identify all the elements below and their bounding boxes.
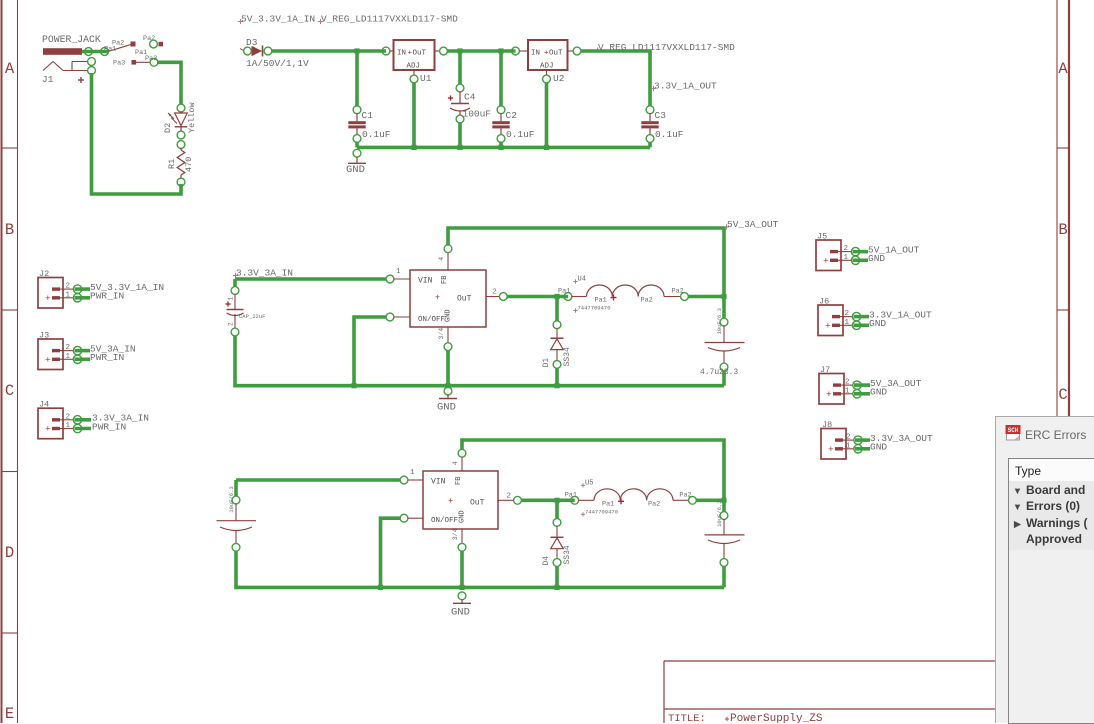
svg-text:1: 1: [845, 387, 850, 395]
svg-text:2: 2: [844, 245, 849, 253]
svg-text:+: +: [45, 424, 51, 435]
svg-text:10uF/6.3: 10uF/6.3: [716, 308, 723, 334]
ground: [353, 149, 361, 157]
diode D3: [240, 49, 244, 52]
svg-text:C3: C3: [655, 110, 667, 121]
wire FB to top rail mid: [448, 228, 724, 297]
svg-text:C: C: [5, 382, 14, 400]
capacitor C3: [646, 106, 654, 114]
pin OUT low: [498, 499, 514, 501]
pad Pa1 ring mid: [564, 293, 572, 301]
svg-text:ADJ: ADJ: [540, 63, 554, 71]
svg-text:J3: J3: [39, 331, 49, 341]
svg-text:2: 2: [228, 322, 235, 326]
svg-text:OuT: OuT: [470, 498, 485, 507]
svg-text:1: 1: [844, 254, 849, 262]
pin ring J6 pin 1: [852, 321, 860, 329]
svg-text:GND: GND: [451, 606, 470, 618]
svg-text:FB: FB: [441, 276, 449, 284]
wire U1 ADJ to GND rail: [412, 83, 416, 148]
svg-text:0.1uF: 0.1uF: [506, 129, 535, 140]
svg-text:U4: U4: [578, 276, 586, 284]
svg-text:ON/OFF: ON/OFF: [431, 517, 458, 525]
inductor U4 coil: [572, 296, 587, 298]
node junction rail ONOFF mid: [351, 383, 356, 388]
wire ON/OFF to rail mid: [354, 317, 387, 386]
wire diode branch low: [555, 500, 559, 519]
wire U2 OUT to C3 branch: [581, 51, 651, 106]
pin ring J4 pin 1: [73, 424, 81, 432]
node junction diode tap mid: [554, 294, 559, 299]
wire OUT to inductor mid: [507, 295, 568, 299]
svg-text:4: 4: [452, 461, 459, 465]
svg-text:+: +: [45, 293, 51, 304]
svg-text:D2: D2: [163, 123, 173, 133]
svg-text:Yellow: Yellow: [187, 101, 197, 133]
svg-text:1: 1: [396, 268, 401, 276]
svg-text:PWR_IN: PWR_IN: [90, 291, 124, 302]
pin GND mid: [447, 327, 449, 343]
svg-text:Pa2: Pa2: [641, 297, 653, 305]
inductor U5 coil: [578, 499, 594, 501]
svg-text:0.1uF: 0.1uF: [655, 129, 684, 140]
wire stub J4 pin 2: [75, 418, 92, 422]
wire inductor to output mid: [688, 295, 724, 299]
svg-text:2: 2: [845, 379, 850, 387]
pin ring U1 IN: [382, 47, 390, 55]
svg-text:J6: J6: [819, 297, 829, 307]
svg-text:U2: U2: [553, 73, 565, 84]
label 7447709470 mid: [573, 310, 577, 312]
pin ring J8 pin 2: [854, 436, 862, 444]
pin ring J3 pin 1: [73, 355, 81, 363]
svg-text:7447709470: 7447709470: [585, 508, 618, 515]
node junction rail GND low: [459, 585, 464, 590]
svg-text:D1: D1: [542, 358, 551, 368]
svg-text:100uF: 100uF: [463, 109, 492, 120]
svg-text:ON/OFF: ON/OFF: [418, 316, 445, 324]
svg-text:D4: D4: [542, 556, 551, 566]
wire C4 to GND rail: [458, 123, 462, 148]
wire stub J6 pin 1: [854, 323, 870, 327]
connector J2: [38, 278, 63, 309]
svg-text:U5: U5: [585, 479, 593, 487]
svg-text:3.3V_3A_IN: 3.3V_3A_IN: [236, 268, 293, 279]
wire VIN net low: [236, 478, 400, 482]
connector J4: [38, 408, 63, 439]
net label 5V_3A_OUT: [724, 226, 729, 228]
net label 5V_3.3V_1A_IN: [238, 21, 243, 23]
diode D1: [553, 321, 561, 329]
pin OUT mid: [486, 296, 500, 298]
pin ring J1 tip: [85, 48, 93, 56]
wire stub J8 pin 1: [855, 447, 870, 451]
wire D3 to U1 IN: [271, 49, 386, 53]
pin ring J7 pin 2: [853, 381, 861, 389]
svg-text:3/4: 3/4: [438, 328, 445, 340]
frame row divider right: [1057, 309, 1069, 311]
svg-text:Pa2: Pa2: [143, 35, 155, 43]
svg-text:GND: GND: [870, 387, 887, 398]
pin ring J2 pin 1: [73, 294, 81, 302]
switch contact Pa1-Pa2 lever: [108, 44, 133, 52]
svg-text:PowerSupply_ZS: PowerSupply_ZS: [730, 713, 823, 723]
svg-text:OuT: OuT: [549, 50, 563, 58]
ERC dialog title: [1025, 428, 1086, 442]
wire input branch low: [234, 480, 238, 497]
pin FB mid: [447, 252, 449, 270]
wire stub J3 pin 2: [75, 349, 91, 353]
ERC dialog icon: [1005, 424, 1022, 441]
svg-text:SS34: SS34: [563, 545, 572, 564]
svg-text:Pa1: Pa1: [602, 500, 614, 508]
svg-text:J1: J1: [42, 74, 54, 85]
svg-text:B: B: [5, 221, 14, 239]
pin ring J4 pin 2: [73, 416, 81, 424]
svg-text:C4: C4: [464, 92, 476, 103]
svg-text:D3: D3: [246, 37, 258, 48]
svg-text:1: 1: [845, 319, 850, 327]
node junction rail U1 ADJ: [411, 145, 416, 150]
pin ring J5 pin 2: [851, 247, 859, 255]
wire stub J8 pin 2: [855, 438, 870, 442]
svg-text:J2: J2: [39, 269, 49, 279]
frame row divider right: [1057, 147, 1069, 149]
svg-text:B: B: [1058, 221, 1067, 239]
ERC dialog list box: [1008, 458, 1094, 724]
svg-text:GND: GND: [870, 442, 887, 453]
wire stub J6 pin 2: [854, 315, 870, 319]
svg-text:PWR_IN: PWR_IN: [90, 352, 124, 363]
pin ring LED bottom: [177, 131, 185, 139]
pin ring R1 top: [177, 141, 185, 149]
pin ring J5 pin 1: [851, 256, 859, 264]
wire U2 ADJ to GND rail: [545, 83, 549, 148]
label 7447709470 low: [581, 513, 585, 515]
net label V_REG_LD1117VXXLD117-SMD top: [318, 21, 323, 23]
svg-text:1: 1: [228, 297, 235, 301]
svg-text:Pa1: Pa1: [595, 297, 607, 305]
wire input cap to rail mid: [235, 336, 724, 386]
svg-text:+: +: [828, 444, 834, 455]
wire jack ground loop: [92, 73, 182, 194]
connector J1 plus mark: [78, 79, 84, 81]
op-amp U2 regulator box: [528, 40, 568, 70]
svg-text:U1: U1: [420, 73, 432, 84]
svg-text:+: +: [45, 355, 51, 366]
wire GND pin to rail mid: [446, 350, 450, 386]
svg-text:Pa1: Pa1: [565, 491, 577, 499]
connector J3: [38, 339, 63, 370]
svg-text:SCH: SCH: [1008, 427, 1019, 434]
svg-text:GND: GND: [868, 253, 885, 264]
svg-text:470: 470: [184, 157, 194, 172]
connector J6: [818, 305, 843, 336]
wire VIN net mid: [235, 277, 386, 281]
svg-text:Pa2: Pa2: [648, 500, 660, 508]
pin ring VIN mid: [386, 275, 394, 283]
svg-text:POWER_JACK: POWER_JACK: [42, 34, 101, 45]
wire diode to rail mid: [555, 368, 559, 386]
svg-text:7447709470: 7447709470: [578, 305, 611, 312]
pad Pa1 ring low: [571, 496, 579, 504]
wire net to C4: [458, 51, 462, 85]
pin FB low: [461, 457, 463, 471]
frame row divider left: [2, 632, 18, 634]
svg-text:+: +: [448, 496, 453, 506]
svg-text:5V_3.3V_1A_IN: 5V_3.3V_1A_IN: [241, 14, 315, 25]
pin U1 OUT: [435, 50, 441, 52]
frame row divider left: [2, 147, 18, 149]
svg-text:1: 1: [410, 469, 415, 477]
wire net to C1: [355, 51, 359, 107]
svg-text:+: +: [825, 321, 831, 332]
svg-text:2: 2: [66, 283, 71, 291]
wire J1 tip stub: [82, 50, 108, 54]
wire stub J5 pin 2: [853, 250, 869, 254]
svg-text:TITLE:: TITLE:: [668, 713, 706, 723]
pin ring U2 IN: [512, 47, 520, 55]
pin U2 ADJ: [546, 70, 548, 76]
svg-text:E: E: [5, 705, 14, 723]
wire input cap to rail low: [236, 551, 724, 588]
pin ring J6 pin 2: [852, 312, 860, 320]
wire inductor to output low: [696, 498, 724, 502]
svg-text:A: A: [1058, 60, 1068, 78]
connector J8: [821, 429, 846, 460]
svg-text:2: 2: [846, 434, 851, 442]
connector J1 barrel contact bar: [43, 48, 82, 55]
node junction C2 tap: [498, 48, 503, 53]
svg-text:J8: J8: [822, 420, 832, 430]
frame left inner line: [17, 0, 19, 723]
pin ON/OFF low: [400, 514, 408, 522]
svg-text:1: 1: [66, 422, 71, 430]
diode D4: [553, 519, 561, 527]
pad Pa2 ring mid: [681, 293, 689, 301]
svg-text:+: +: [435, 292, 440, 302]
pin ON/OFF mid: [386, 313, 394, 321]
ground: [444, 387, 452, 395]
wire output cap branch mid: [722, 297, 726, 319]
wire stub J3 pin 1: [75, 357, 91, 361]
wire OUT to inductor low: [521, 498, 575, 502]
title block outline: [664, 660, 1057, 662]
svg-text:PWR_IN: PWR_IN: [92, 421, 126, 432]
svg-text:OuT: OuT: [413, 50, 427, 58]
svg-text:2: 2: [66, 344, 71, 352]
net label 3.3V_1A_OUT: [651, 88, 656, 90]
svg-text:3.3V_1A_OUT: 3.3V_1A_OUT: [654, 81, 717, 92]
svg-text:+: +: [823, 256, 829, 267]
svg-text:0.1uF: 0.1uF: [362, 129, 391, 140]
wire input branch mid: [233, 279, 237, 287]
wire output cap branch low: [722, 500, 726, 512]
wire stub J2 pin 2: [75, 287, 91, 291]
connector J1 symbol: [43, 62, 53, 71]
node junction C4 tap: [457, 48, 462, 53]
pin ring jack pin2: [88, 58, 96, 66]
pin ring LED top: [177, 104, 185, 112]
wire GND pin to rail low: [460, 551, 464, 588]
svg-text:IN: IN: [397, 50, 406, 58]
pin GND low: [461, 529, 463, 544]
svg-text:Pa1: Pa1: [104, 46, 116, 54]
node junction rail ONOFF low: [378, 585, 383, 590]
op-amp U4 buck regulator box: [410, 270, 486, 327]
pad Pa3 ring: [150, 58, 158, 66]
svg-text:4: 4: [438, 257, 445, 261]
svg-text:J5: J5: [817, 232, 827, 242]
capacitor output mid: [720, 318, 728, 326]
frame right outer line: [1068, 0, 1070, 660]
capacitor C2: [497, 106, 505, 114]
node junction rail C4: [457, 145, 462, 150]
svg-text:IN: IN: [531, 50, 540, 58]
wire stub J4 pin 1: [75, 427, 92, 431]
node junction rail U2 ADJ: [544, 145, 549, 150]
svg-text:1: 1: [66, 291, 71, 299]
connector J7: [819, 374, 844, 405]
wire stub J7 pin 1: [854, 392, 870, 396]
diode D2 LED: [180, 112, 182, 114]
svg-text:CAP_22uF: CAP_22uF: [239, 313, 265, 320]
node junction rail diode low: [554, 585, 559, 590]
connector J5: [816, 240, 841, 271]
wire Pa3 to LED branch: [157, 62, 181, 104]
wire stub J5 pin 1: [853, 258, 869, 262]
svg-text:2: 2: [507, 492, 512, 500]
pin ring jack pin1: [88, 67, 96, 75]
wire stub J2 pin 1: [75, 296, 91, 300]
svg-text:V_REG_LD1117VXXLD117-SMD: V_REG_LD1117VXXLD117-SMD: [321, 14, 458, 25]
svg-text:Pa3: Pa3: [113, 60, 125, 68]
label U4: [573, 281, 577, 283]
wire U1 OUT to U2 IN: [447, 49, 516, 53]
svg-text:10uF/6.3: 10uF/6.3: [228, 486, 235, 512]
svg-text:C2: C2: [506, 110, 518, 121]
svg-text:VIN: VIN: [431, 478, 446, 487]
node junction rail GND mid: [445, 383, 450, 388]
frame row divider left: [2, 309, 18, 311]
svg-text:1: 1: [846, 442, 851, 450]
capacitor C1: [353, 106, 361, 114]
pin ring J1 tip node: [101, 48, 109, 56]
wire net to C2: [499, 51, 503, 107]
op-amp U5 buck regulator box: [423, 471, 498, 529]
svg-text:FB: FB: [455, 477, 463, 485]
pin ring R1 bottom: [177, 178, 185, 186]
node junction C1 tap: [354, 48, 359, 53]
svg-text:GND: GND: [459, 510, 467, 523]
svg-text:D: D: [5, 544, 14, 562]
capacitor input low: [232, 496, 240, 504]
pin ring J8 pin 1: [854, 445, 862, 453]
frame left outer line: [1, 0, 3, 723]
svg-text:1A/50V/1,1V: 1A/50V/1,1V: [246, 58, 309, 69]
pin U2 OUT: [568, 50, 574, 52]
ground: [458, 592, 466, 600]
wire C1 to GND rail: [355, 142, 359, 148]
svg-text:C: C: [1058, 386, 1067, 404]
wire C3 to GND rail: [648, 142, 652, 147]
svg-text:+: +: [826, 389, 832, 400]
svg-text:J4: J4: [39, 400, 49, 410]
svg-text:4.7u: 4.7u: [700, 368, 719, 377]
node junction rail C2: [498, 145, 503, 150]
pin ring J7 pin 1: [853, 390, 861, 398]
svg-text:C1: C1: [362, 110, 374, 121]
svg-text:GND: GND: [346, 164, 365, 176]
svg-text:1: 1: [66, 353, 71, 361]
resistor R1: [180, 148, 182, 150]
capacitor C4 polarized: [456, 84, 464, 92]
svg-text:ADJ: ADJ: [407, 63, 421, 71]
title block name PowerSupply_ZS: [725, 718, 729, 720]
label V_REG_LD1117VXXLD117-SMD right: [595, 49, 600, 51]
svg-text:J7: J7: [820, 365, 830, 375]
label U5: [581, 484, 585, 486]
svg-text:GND: GND: [437, 402, 456, 414]
ERC Errors dialog window: [995, 416, 1094, 723]
net label 3.3V_3A_IN: [233, 275, 238, 277]
svg-text:SS34: SS34: [563, 347, 572, 366]
pad Pa3 contact dot: [132, 60, 137, 65]
pin U1 ADJ: [413, 70, 415, 76]
svg-text:GND: GND: [445, 309, 453, 322]
frame right inner line: [1056, 0, 1058, 660]
op-amp U1 regulator box: [394, 40, 435, 70]
wire C2 to GND rail: [499, 142, 503, 148]
node junction rail diode mid: [554, 383, 559, 388]
svg-text:GND: GND: [869, 318, 886, 329]
svg-text:2: 2: [845, 310, 850, 318]
node junction output corner mid: [721, 294, 726, 299]
node junction diode tap low: [554, 498, 559, 503]
svg-text:10uF/6.3: 10uF/6.3: [716, 500, 723, 526]
wire GND rail top section: [357, 146, 650, 150]
wire ON/OFF to rail low: [381, 518, 401, 587]
svg-text:2: 2: [492, 289, 497, 297]
svg-text:23.3: 23.3: [719, 368, 738, 377]
wire FB to top rail low: [462, 440, 724, 500]
capacitor output low: [720, 512, 728, 520]
svg-text:R1: R1: [167, 159, 177, 169]
wire diode to rail low: [555, 566, 559, 587]
wire diode branch mid: [555, 297, 559, 322]
svg-text:3/4: 3/4: [452, 528, 459, 540]
svg-text:A: A: [5, 60, 15, 78]
node junction output corner low: [721, 498, 726, 503]
svg-text:Pa1: Pa1: [558, 288, 570, 296]
svg-text:VIN: VIN: [418, 277, 433, 286]
svg-text:2: 2: [66, 413, 71, 421]
pin ring J2 pin 2: [73, 285, 81, 293]
pad Pa2 ring low: [689, 496, 697, 504]
capacitor input mid: [231, 287, 239, 295]
wire stub J7 pin 2: [854, 383, 870, 387]
frame row divider left: [2, 471, 18, 473]
svg-text:OuT: OuT: [457, 295, 472, 304]
pin ring VIN low: [400, 476, 408, 484]
svg-text:5V_3A_OUT: 5V_3A_OUT: [727, 219, 779, 230]
pad Pa2 ring: [150, 40, 158, 48]
pin ring J3 pin 2: [73, 346, 81, 354]
